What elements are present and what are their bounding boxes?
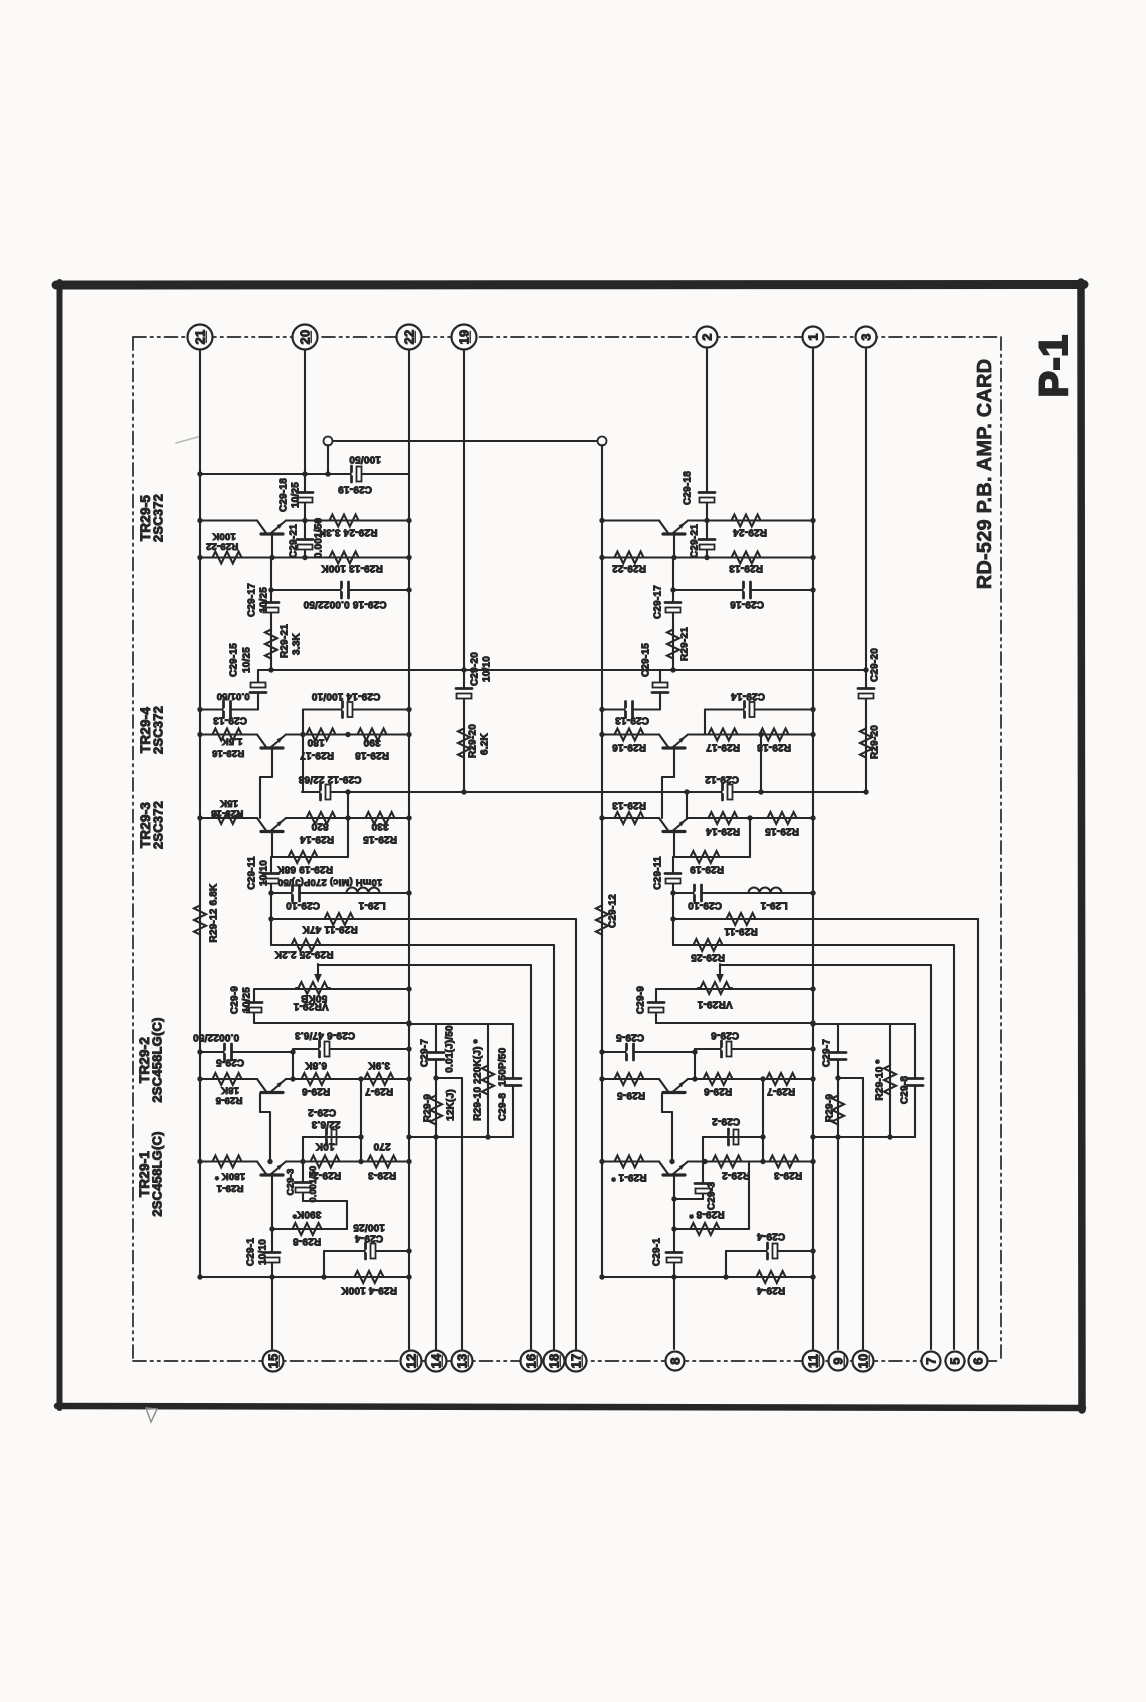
svg-text:R29-10 *: R29-10 * bbox=[875, 1059, 886, 1100]
svg-text:R29-4 100K: R29-4 100K bbox=[340, 1284, 396, 1295]
svg-text:C29-16 0.0022/50: C29-16 0.0022/50 bbox=[303, 598, 387, 609]
svg-text:0.01(J)/50: 0.01(J)/50 bbox=[445, 1025, 456, 1073]
svg-text:100K: 100K bbox=[212, 531, 236, 542]
svg-text:R29-13: R29-13 bbox=[211, 808, 243, 819]
svg-text:1.5K: 1.5K bbox=[222, 736, 243, 747]
svg-text:18: 18 bbox=[547, 1354, 562, 1369]
svg-text:100/25: 100/25 bbox=[353, 1221, 385, 1232]
svg-text:330: 330 bbox=[371, 820, 389, 831]
svg-text:180: 180 bbox=[307, 736, 325, 747]
svg-text:R29-7: R29-7 bbox=[767, 1085, 795, 1096]
svg-text:R29-8: R29-8 bbox=[293, 1235, 321, 1246]
svg-text:C29-21: C29-21 bbox=[289, 524, 300, 558]
svg-text:R29-12 6.8K: R29-12 6.8K bbox=[209, 883, 220, 942]
svg-text:R29-25: R29-25 bbox=[691, 951, 725, 962]
svg-text:15K: 15K bbox=[220, 798, 238, 809]
svg-text:12K(J): 12K(J) bbox=[446, 1089, 457, 1121]
svg-text:C29-6 47/6.3: C29-6 47/6.3 bbox=[295, 1029, 355, 1040]
svg-text:R29-20: R29-20 bbox=[870, 725, 881, 759]
svg-text:C29-18: C29-18 bbox=[279, 478, 290, 512]
svg-text:2SC372: 2SC372 bbox=[151, 706, 166, 754]
svg-text:180K *: 180K * bbox=[215, 1171, 245, 1182]
svg-text:22: 22 bbox=[402, 330, 417, 345]
svg-text:R29-16: R29-16 bbox=[212, 748, 244, 759]
svg-text:R29-11 47K: R29-11 47K bbox=[302, 923, 358, 934]
svg-text:C29-9: C29-9 bbox=[636, 986, 647, 1014]
svg-text:9: 9 bbox=[831, 1357, 846, 1364]
svg-text:10K: 10K bbox=[315, 1140, 335, 1151]
svg-text:R29-25 2.2K: R29-25 2.2K bbox=[274, 948, 333, 959]
svg-text:2SC372: 2SC372 bbox=[151, 494, 166, 542]
svg-text:C29-18: C29-18 bbox=[683, 471, 694, 505]
svg-text:820: 820 bbox=[311, 820, 329, 831]
svg-text:R29-19: R29-19 bbox=[690, 863, 724, 874]
svg-text:22/6.3: 22/6.3 bbox=[311, 1118, 340, 1129]
svg-text:150P/50: 150P/50 bbox=[498, 1047, 509, 1086]
svg-text:C29-14: C29-14 bbox=[731, 690, 765, 701]
svg-text:10mH (Mic) 270P(J)/50: 10mH (Mic) 270P(J)/50 bbox=[278, 877, 383, 888]
svg-text:R29-13: R29-13 bbox=[729, 562, 763, 573]
svg-text:R29-15: R29-15 bbox=[765, 825, 799, 836]
svg-text:R29-3: R29-3 bbox=[368, 1169, 396, 1180]
svg-text:R29-22: R29-22 bbox=[612, 562, 646, 573]
svg-text:10/10: 10/10 bbox=[258, 1239, 269, 1265]
svg-text:R29-11: R29-11 bbox=[724, 925, 758, 936]
svg-text:VR29-1: VR29-1 bbox=[293, 1000, 328, 1011]
svg-text:18K: 18K bbox=[221, 1085, 239, 1096]
svg-text:C29-17: C29-17 bbox=[653, 585, 664, 619]
svg-text:C29-2: C29-2 bbox=[712, 1115, 740, 1126]
svg-text:R29-5: R29-5 bbox=[215, 1095, 242, 1106]
svg-text:C29-12 22/63: C29-12 22/63 bbox=[298, 773, 361, 784]
svg-text:R29-8 *: R29-8 * bbox=[689, 1208, 724, 1219]
svg-text:C29-4: C29-4 bbox=[355, 1232, 383, 1243]
svg-text:17: 17 bbox=[569, 1354, 584, 1369]
svg-text:3.9K: 3.9K bbox=[367, 1059, 390, 1070]
svg-text:R29-2: R29-2 bbox=[313, 1169, 341, 1180]
svg-text:C29-13: C29-13 bbox=[615, 714, 649, 725]
svg-text:R29-5: R29-5 bbox=[617, 1089, 645, 1100]
svg-text:6: 6 bbox=[971, 1357, 986, 1364]
svg-text:3.3K: 3.3K bbox=[292, 632, 303, 655]
svg-text:6.8K: 6.8K bbox=[304, 1059, 327, 1070]
svg-text:C29-11: C29-11 bbox=[653, 856, 664, 890]
svg-text:R29-24: R29-24 bbox=[733, 526, 767, 537]
svg-text:R29-22: R29-22 bbox=[206, 541, 238, 552]
svg-text:C29-15: C29-15 bbox=[641, 643, 652, 677]
svg-text:C29-20: C29-20 bbox=[470, 652, 481, 686]
svg-text:10/25: 10/25 bbox=[291, 482, 302, 508]
svg-text:L29-1: L29-1 bbox=[358, 899, 385, 910]
svg-text:13: 13 bbox=[455, 1354, 470, 1369]
svg-text:C29-3: C29-3 bbox=[707, 1182, 718, 1210]
svg-text:12: 12 bbox=[404, 1354, 419, 1369]
svg-text:0.0022/50: 0.0022/50 bbox=[193, 1031, 240, 1042]
svg-text:390: 390 bbox=[363, 736, 381, 747]
svg-text:R29-4: R29-4 bbox=[757, 1284, 785, 1295]
svg-text:C29-8: C29-8 bbox=[498, 1093, 509, 1121]
svg-text:C29-10: C29-10 bbox=[286, 899, 320, 910]
svg-text:C29-5: C29-5 bbox=[616, 1031, 644, 1042]
svg-text:R29-13 100K: R29-13 100K bbox=[321, 562, 383, 573]
svg-text:R29-21: R29-21 bbox=[680, 627, 691, 661]
svg-text:R29-19 68K: R29-19 68K bbox=[276, 863, 332, 874]
svg-text:C29-20: C29-20 bbox=[870, 648, 881, 682]
svg-text:C29-3: C29-3 bbox=[285, 1169, 296, 1196]
svg-text:1: 1 bbox=[806, 333, 821, 340]
svg-text:21: 21 bbox=[193, 330, 208, 345]
svg-text:14: 14 bbox=[429, 1353, 444, 1368]
svg-text:C29-10: C29-10 bbox=[688, 899, 722, 910]
svg-text:3: 3 bbox=[859, 333, 874, 340]
svg-text:0.001/50: 0.001/50 bbox=[314, 518, 325, 559]
svg-text:6.2K: 6.2K bbox=[480, 732, 491, 755]
svg-text:10/25: 10/25 bbox=[242, 987, 253, 1013]
svg-text:C29-15: C29-15 bbox=[229, 643, 240, 677]
svg-text:10: 10 bbox=[856, 1354, 871, 1369]
svg-text:19: 19 bbox=[457, 330, 472, 345]
svg-text:C29-12: C29-12 bbox=[608, 894, 619, 928]
svg-text:16: 16 bbox=[524, 1354, 539, 1369]
svg-text:2SC372: 2SC372 bbox=[151, 801, 166, 849]
svg-text:R29-1 *: R29-1 * bbox=[611, 1171, 646, 1182]
svg-text:390K*: 390K* bbox=[293, 1208, 322, 1219]
svg-text:R29-13: R29-13 bbox=[612, 799, 646, 810]
svg-text:C29-1: C29-1 bbox=[246, 1238, 257, 1266]
svg-text:C29-4: C29-4 bbox=[757, 1230, 785, 1241]
svg-text:R29-9: R29-9 bbox=[825, 1094, 836, 1122]
svg-text:R29-24 3.3K: R29-24 3.3K bbox=[318, 526, 377, 537]
svg-text:VR29-1: VR29-1 bbox=[697, 998, 732, 1009]
svg-text:C29-19: C29-19 bbox=[338, 483, 372, 494]
svg-text:C29-12: C29-12 bbox=[705, 773, 739, 784]
svg-text:10/10: 10/10 bbox=[259, 860, 270, 886]
svg-text:R29-15: R29-15 bbox=[363, 833, 397, 844]
svg-text:8: 8 bbox=[668, 1357, 683, 1364]
svg-text:R29-21: R29-21 bbox=[280, 624, 291, 658]
svg-text:0.01/50: 0.01/50 bbox=[216, 691, 249, 702]
svg-text:C29-8: C29-8 bbox=[900, 1076, 911, 1104]
svg-text:C29-17: C29-17 bbox=[247, 583, 258, 617]
svg-text:C29-11: C29-11 bbox=[247, 856, 258, 890]
svg-text:C29-1: C29-1 bbox=[652, 1238, 663, 1266]
svg-text:R29-9: R29-9 bbox=[423, 1094, 434, 1122]
svg-text:C29-5: C29-5 bbox=[216, 1056, 244, 1067]
svg-text:R29-3: R29-3 bbox=[774, 1169, 802, 1180]
svg-text:15: 15 bbox=[266, 1354, 281, 1369]
svg-text:C29-6: C29-6 bbox=[711, 1029, 739, 1040]
svg-text:C29-2: C29-2 bbox=[308, 1106, 336, 1117]
svg-text:C29-9: C29-9 bbox=[230, 986, 241, 1014]
svg-text:RD-529 P.B. AMP. CARD: RD-529 P.B. AMP. CARD bbox=[974, 359, 996, 590]
svg-text:R29-7: R29-7 bbox=[365, 1085, 393, 1096]
svg-text:100/50: 100/50 bbox=[349, 453, 381, 464]
svg-text:5: 5 bbox=[948, 1357, 963, 1364]
svg-text:C29-13: C29-13 bbox=[213, 714, 247, 725]
svg-text:R29-14: R29-14 bbox=[706, 825, 740, 836]
svg-text:10/10: 10/10 bbox=[482, 656, 493, 682]
svg-text:R29-6: R29-6 bbox=[302, 1085, 330, 1096]
svg-text:R29-1: R29-1 bbox=[216, 1183, 243, 1194]
svg-text:R29-16: R29-16 bbox=[612, 741, 646, 752]
svg-text:R29-2: R29-2 bbox=[722, 1169, 750, 1180]
svg-text:2SC458LG(C): 2SC458LG(C) bbox=[150, 1131, 165, 1216]
svg-text:2: 2 bbox=[700, 333, 715, 340]
svg-text:R29-14: R29-14 bbox=[300, 833, 334, 844]
svg-text:R29-10 220K(J) *: R29-10 220K(J) * bbox=[473, 1039, 484, 1121]
svg-text:C29-14 100/10: C29-14 100/10 bbox=[311, 690, 380, 701]
svg-text:C29-16: C29-16 bbox=[730, 598, 764, 609]
svg-text:270: 270 bbox=[373, 1140, 391, 1151]
svg-text:C29-7: C29-7 bbox=[420, 1039, 431, 1067]
svg-text:L29-1: L29-1 bbox=[760, 899, 787, 910]
svg-text:7: 7 bbox=[924, 1357, 939, 1364]
svg-text:P-1: P-1 bbox=[1032, 335, 1076, 398]
svg-text:11: 11 bbox=[806, 1354, 821, 1368]
svg-text:R29-6: R29-6 bbox=[704, 1085, 732, 1096]
svg-text:R29-17: R29-17 bbox=[300, 749, 334, 760]
svg-text:R29-18: R29-18 bbox=[355, 749, 389, 760]
svg-text:R29-17: R29-17 bbox=[706, 741, 740, 752]
svg-text:10/25: 10/25 bbox=[242, 647, 253, 673]
svg-text:2SC458LG(C): 2SC458LG(C) bbox=[150, 1017, 165, 1102]
svg-text:10/25: 10/25 bbox=[259, 587, 270, 613]
svg-text:C29-21: C29-21 bbox=[690, 524, 701, 558]
svg-text:R29-20: R29-20 bbox=[468, 724, 479, 758]
svg-text:C29-7: C29-7 bbox=[822, 1039, 833, 1067]
svg-text:20: 20 bbox=[298, 330, 313, 345]
